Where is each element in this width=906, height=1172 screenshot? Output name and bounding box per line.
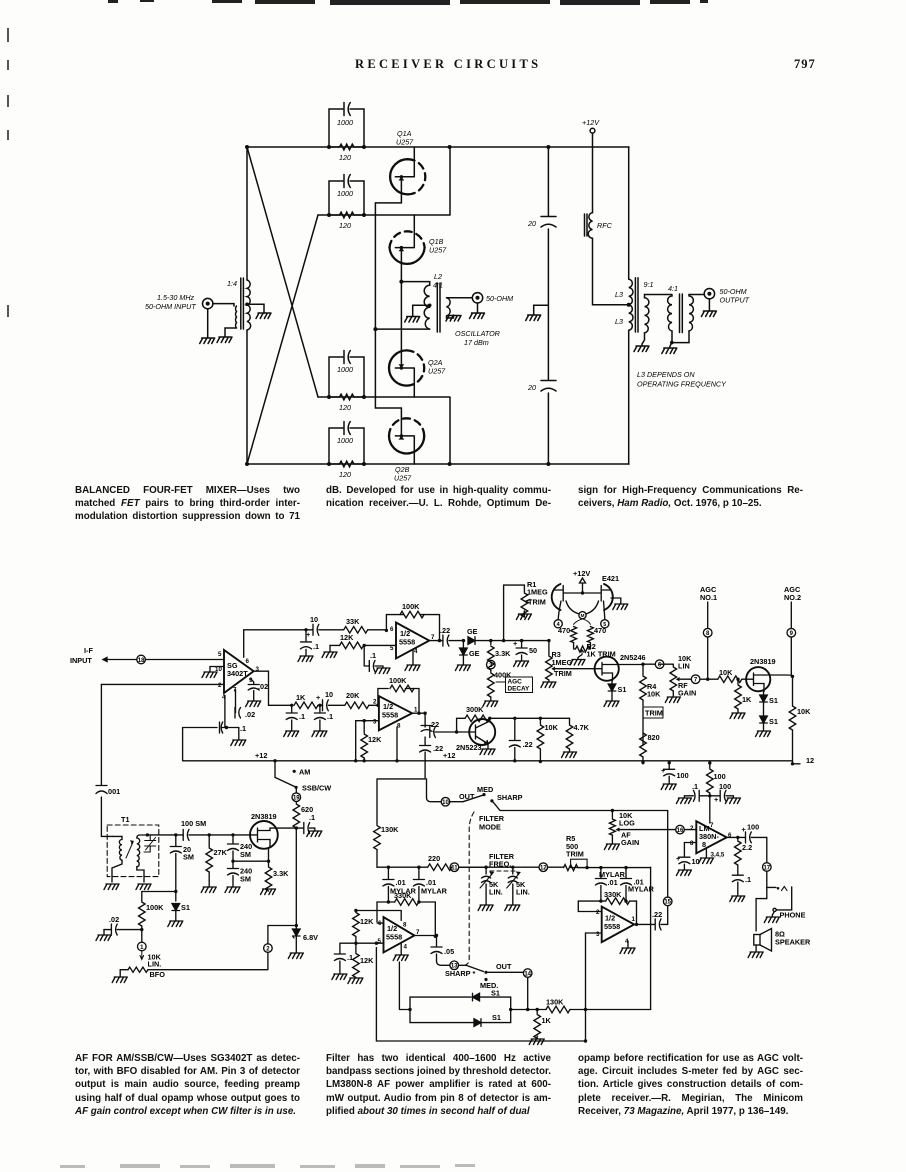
pin6 top path: 10 cap, .1, 33K	[298, 615, 386, 662]
zener 6.8V	[295, 926, 297, 930]
svg-text:12K: 12K	[360, 956, 374, 965]
connector J3 output	[701, 287, 749, 317]
svg-text:5558: 5558	[399, 638, 415, 647]
240 SM caps	[232, 835, 234, 844]
svg-text:LIN: LIN	[678, 662, 690, 671]
svg-text:TRIM: TRIM	[528, 598, 546, 607]
svg-text:10: 10	[692, 857, 700, 866]
drain to node 6 line	[613, 663, 656, 665]
svg-text:10: 10	[325, 690, 333, 699]
node 10 OUT switch	[426, 779, 428, 798]
svg-text:100: 100	[677, 771, 689, 780]
svg-text:4: 4	[414, 648, 418, 655]
op-amp U5 1/2 5558 (filter 2)	[586, 897, 673, 953]
node 2	[264, 944, 273, 953]
output and .05	[414, 935, 436, 937]
inductor RFC	[585, 213, 629, 305]
svg-text:SM: SM	[240, 875, 251, 884]
svg-text:AGC: AGC	[508, 679, 523, 686]
svg-text:+12: +12	[443, 751, 455, 760]
svg-text:5558: 5558	[386, 933, 402, 942]
op-amp U2B 1/2 5558	[356, 676, 443, 779]
svg-text:300K: 300K	[466, 705, 484, 714]
AGC NO.2 line node 9	[784, 585, 814, 765]
pin8 to rail	[396, 727, 398, 761]
header	[355, 57, 541, 72]
svg-text:SM: SM	[183, 853, 194, 862]
R4 10K TRIM	[642, 664, 644, 675]
resistor R1 120	[329, 144, 365, 162]
svg-text:NO.2: NO.2	[784, 593, 801, 602]
svg-text:OUT: OUT	[496, 962, 512, 971]
transistor Q2B	[389, 408, 424, 483]
svg-text:4: 4	[404, 944, 408, 951]
top caption	[75, 484, 300, 524]
svg-text:1K: 1K	[742, 695, 752, 704]
svg-text:T1: T1	[121, 815, 130, 824]
power +12V	[582, 118, 600, 213]
svg-text:MODE: MODE	[479, 823, 501, 832]
svg-text:130K: 130K	[546, 998, 564, 1007]
mylar caps	[600, 868, 602, 878]
transformer L2 4:1	[401, 272, 471, 332]
speaker branch	[756, 887, 767, 931]
svg-text:.001: .001	[106, 787, 120, 796]
svg-text:100K: 100K	[389, 676, 407, 685]
svg-text:.1: .1	[299, 712, 305, 721]
svg-text:7: 7	[710, 822, 714, 829]
wire: Q1B source down to Q2A	[400, 282, 402, 368]
svg-text:20K: 20K	[346, 691, 360, 700]
pin4 and .1 cap line to +12 rail corner	[183, 696, 239, 761]
resistor R4 120	[329, 461, 365, 479]
svg-text:I-F: I-F	[84, 646, 93, 655]
svg-text:SSB/CW: SSB/CW	[302, 784, 331, 793]
op-amp U3 LM380N-8	[676, 821, 767, 901]
130K	[546, 1006, 570, 1013]
transistor Q4 2N5223	[430, 705, 590, 762]
svg-text:.1: .1	[370, 651, 376, 660]
svg-text:MYLAR: MYLAR	[599, 870, 626, 879]
svg-text:6: 6	[390, 626, 394, 633]
svg-text:S1: S1	[181, 903, 190, 912]
transistor Q1B	[390, 215, 448, 282]
svg-text:S1: S1	[491, 989, 500, 998]
switch AM / SSB-CW	[275, 761, 331, 926]
svg-text:10K: 10K	[647, 690, 661, 699]
svg-text:5: 5	[378, 938, 382, 945]
svg-text:10K: 10K	[719, 668, 733, 677]
svg-text:3: 3	[373, 719, 377, 726]
svg-text:12: 12	[540, 866, 547, 872]
tuning cap inside box	[144, 835, 156, 852]
ground stub mid	[526, 305, 549, 320]
coupling cap to ground right of preamp	[296, 827, 303, 829]
.1 caps to ground	[291, 705, 293, 712]
svg-text:12: 12	[806, 756, 814, 765]
junction dots	[245, 145, 631, 466]
100 cap right	[710, 795, 720, 797]
.1 cap left	[700, 795, 710, 797]
svg-text:.1: .1	[327, 712, 333, 721]
transformer L3 9:1	[615, 147, 672, 464]
connector: phone jack and speaker	[748, 863, 811, 958]
4.7K	[569, 718, 571, 724]
svg-text:+: +	[316, 693, 320, 702]
svg-text:TRIM: TRIM	[554, 669, 572, 678]
R3 trimmer and 2N5246	[541, 639, 664, 764]
svg-text:.1: .1	[309, 813, 315, 822]
2.2 resistor	[737, 837, 739, 840]
op-amp U4 1/2 5558 (filter 1)	[332, 909, 532, 990]
GE shunt diode	[462, 641, 464, 648]
capacitor C1 1000	[329, 103, 364, 148]
10K LIN RF GAIN pot	[660, 664, 674, 666]
svg-text:820: 820	[648, 733, 660, 742]
second bandpass stage	[548, 834, 655, 926]
svg-text:TRIM: TRIM	[566, 850, 584, 859]
pin3 network	[356, 721, 379, 733]
wire: top rail 1	[247, 146, 629, 148]
R2 pot	[574, 643, 591, 649]
svg-text:NO.1: NO.1	[700, 593, 717, 602]
wire: rail 2	[318, 147, 450, 215]
svg-text:S1: S1	[618, 685, 627, 694]
.22 bypass	[514, 718, 516, 740]
svg-text:8: 8	[702, 840, 706, 849]
svg-text:LIN.: LIN.	[489, 888, 503, 897]
svg-text:1MEG: 1MEG	[552, 658, 573, 667]
svg-text:2N5223: 2N5223	[456, 743, 482, 752]
svg-text:MYLAR: MYLAR	[421, 887, 448, 896]
svg-text:1K TRIM: 1K TRIM	[587, 650, 616, 659]
svg-text:15: 15	[664, 900, 671, 906]
svg-text:.22: .22	[433, 744, 443, 753]
connector J1 input	[145, 293, 234, 344]
mylar caps + 330K stage 1	[377, 867, 448, 938]
svg-text:10K: 10K	[545, 723, 559, 732]
470 resistors	[574, 619, 591, 625]
svg-text:.1: .1	[347, 953, 353, 962]
svg-text:2: 2	[690, 825, 694, 832]
12K input resistor opamp A	[322, 633, 396, 674]
connector J2 oscillator	[455, 293, 513, 347]
svg-text:+: +	[676, 854, 680, 863]
svg-text:8: 8	[403, 922, 407, 929]
27K	[208, 835, 210, 847]
svg-text:10: 10	[310, 615, 318, 624]
.22 GE diode chain	[440, 580, 549, 707]
capacitor 20 lower	[527, 381, 556, 393]
svg-text:1K: 1K	[296, 693, 306, 702]
svg-text:SHARP: SHARP	[497, 793, 523, 802]
svg-text:S1: S1	[492, 1013, 501, 1022]
meter tube E421	[552, 569, 628, 665]
svg-text:1: 1	[632, 916, 636, 923]
transistor Q2 2N5246	[595, 657, 619, 681]
svg-text:3402T: 3402T	[227, 669, 248, 678]
op-amp U2A 1/2 5558	[385, 602, 443, 671]
svg-text:SHARP *: SHARP *	[445, 969, 475, 978]
svg-text:100: 100	[719, 782, 731, 791]
svg-text:+: +	[742, 825, 746, 834]
transistor Q1A	[375, 129, 425, 203]
svg-text:4.7K: 4.7K	[574, 723, 590, 732]
svg-text:16: 16	[677, 828, 684, 834]
svg-text:.02: .02	[245, 710, 255, 719]
collector up to 300K line	[489, 718, 491, 721]
svg-text:470: 470	[594, 626, 606, 635]
svg-text:12K: 12K	[360, 917, 374, 926]
pin3 right	[254, 671, 292, 705]
svg-text:50: 50	[529, 646, 537, 655]
svg-text:17: 17	[763, 865, 770, 871]
capacitor C2 1000	[329, 175, 364, 216]
capacitor C3 1000	[329, 351, 364, 398]
pin7 .02 cap	[235, 690, 237, 713]
svg-text:2N3819: 2N3819	[750, 657, 776, 666]
wire: mid vertical with caps	[547, 147, 549, 464]
svg-text:PHONE: PHONE	[780, 911, 806, 920]
transformer 4:1 output	[662, 284, 704, 354]
svg-text:470: 470	[558, 626, 570, 635]
svg-text:TRIM: TRIM	[645, 709, 663, 718]
filter section: opamp2 output down to 130K	[374, 779, 668, 965]
svg-text:330K: 330K	[394, 891, 412, 900]
svg-text:5558: 5558	[382, 711, 398, 720]
pin10 ground	[210, 667, 224, 673]
AF gain pot 10K LOG	[604, 811, 675, 850]
svg-text:S1: S1	[769, 717, 778, 726]
svg-text:27K: 27K	[214, 848, 228, 857]
R1 trimmer	[504, 585, 525, 641]
feedback 100K	[386, 615, 439, 641]
node 1 and BFO pot	[138, 942, 147, 951]
svg-text:2: 2	[373, 699, 377, 706]
pin2 line to left vertical	[101, 683, 224, 685]
pin6 up	[244, 630, 306, 658]
output	[412, 712, 425, 714]
svg-text:18: 18	[138, 658, 145, 664]
svg-text:+: +	[661, 766, 665, 775]
svg-text:GE: GE	[469, 649, 480, 658]
svg-text:10K: 10K	[797, 707, 811, 716]
svg-text:100 SM: 100 SM	[181, 819, 206, 828]
svg-text:3: 3	[256, 666, 260, 673]
svg-text:5: 5	[390, 645, 394, 652]
op-amp U1 SG3402T	[101, 630, 306, 761]
svg-text:8: 8	[690, 840, 694, 847]
svg-text:11: 11	[451, 866, 458, 872]
svg-text:GE: GE	[467, 627, 478, 636]
svg-text:12K: 12K	[368, 735, 382, 744]
svg-text:10: 10	[442, 800, 449, 806]
330K	[578, 900, 605, 902]
resistor R3 120	[329, 394, 365, 412]
pin3 second path: 1K, 10, 20K	[284, 690, 378, 737]
50 cap	[521, 641, 523, 648]
diode threshold box	[376, 867, 650, 1044]
pin8 bias	[356, 911, 401, 921]
svg-text:19: 19	[293, 796, 300, 802]
capacitor 20 upper	[527, 217, 556, 229]
pin 8 cap	[684, 843, 696, 857]
resistor 33K	[344, 627, 368, 634]
svg-text:AM: AM	[299, 768, 310, 777]
svg-text:2.2: 2.2	[742, 843, 752, 852]
svg-text:.05: .05	[444, 947, 454, 956]
svg-text:130K: 130K	[381, 825, 399, 834]
.02 cap	[104, 929, 111, 931]
svg-text:LOG: LOG	[619, 819, 635, 828]
svg-text:.1: .1	[240, 724, 246, 733]
.1 and 12K2 below pin5	[340, 943, 356, 953]
bottom caption	[75, 1052, 300, 1118]
transformer T1 1:4	[217, 278, 271, 343]
10K	[539, 718, 541, 724]
svg-text:6.8V: 6.8V	[303, 933, 318, 942]
svg-text:.22: .22	[523, 740, 533, 749]
svg-text:220: 220	[428, 854, 440, 863]
svg-text:INPUT: INPUT	[70, 656, 92, 665]
1K to ground	[536, 1010, 538, 1014]
svg-text:100K: 100K	[146, 903, 164, 912]
output	[727, 836, 746, 838]
.22 cap to 2N5223 base	[0, 0, 1, 1]
svg-text:LIN.: LIN.	[516, 888, 530, 897]
svg-text:S1: S1	[769, 696, 778, 705]
svg-text:BFO: BFO	[150, 970, 166, 979]
pins 3,4,5 ground	[705, 848, 707, 858]
svg-text:GAIN: GAIN	[678, 689, 696, 698]
svg-text:OUT: OUT	[459, 792, 475, 801]
node 18 / I-F input	[70, 646, 224, 665]
svg-text:+12: +12	[255, 751, 267, 760]
svg-text:SPEAKER: SPEAKER	[775, 938, 811, 947]
svg-text:.02: .02	[109, 915, 119, 924]
svg-text:.1: .1	[313, 642, 319, 651]
svg-text:2N3819: 2N3819	[251, 812, 277, 821]
svg-text:MYLAR: MYLAR	[628, 885, 655, 894]
capacitor C4 1000	[329, 422, 364, 465]
wire: left vertical (T1 secondary column)	[246, 147, 248, 464]
svg-text:SM: SM	[240, 850, 251, 859]
svg-text:LIN.: LIN.	[148, 960, 162, 969]
svg-text:2: 2	[596, 909, 600, 916]
transistor Q2A	[389, 350, 446, 397]
svg-text:3.3K: 3.3K	[495, 649, 511, 658]
transformer T2 (T1 box)	[104, 815, 159, 890]
svg-text:.01: .01	[608, 878, 618, 887]
source line to 3.3K	[233, 860, 269, 862]
left vertical with .001 cap	[96, 684, 120, 836]
3.3K to AGC decay	[490, 641, 492, 645]
svg-text:1: 1	[414, 707, 418, 714]
+12 rail	[183, 751, 800, 766]
transistor Q5 2N3819 preamp	[250, 812, 296, 861]
svg-text:.22: .22	[652, 910, 662, 919]
5K LIN pot 2	[459, 866, 539, 868]
svg-text:12K: 12K	[340, 633, 354, 642]
wire: crossover diagonals	[247, 147, 318, 464]
svg-text:100: 100	[747, 823, 759, 832]
svg-text:5558: 5558	[604, 922, 620, 931]
AGC NO.1 line, node 8, node 7	[660, 585, 752, 719]
5K LIN pot 1 (variable)	[482, 876, 491, 882]
svg-text:3.3K: 3.3K	[273, 869, 289, 878]
wire: rail 3	[318, 397, 450, 464]
preamp input line	[147, 819, 289, 895]
svg-text:330K: 330K	[604, 890, 622, 899]
pin9 .02	[250, 679, 253, 685]
svg-text:2: 2	[218, 682, 222, 689]
svg-text:.22: .22	[440, 626, 450, 635]
wire: L2 bottom to source column	[375, 328, 429, 330]
pin4 ground	[400, 944, 402, 955]
svg-text:6: 6	[246, 658, 250, 665]
svg-text:14: 14	[524, 971, 531, 977]
wire: Q1A source jog down to Q2B jog	[375, 203, 401, 408]
svg-text:5: 5	[218, 651, 222, 658]
svg-text:.1: .1	[692, 782, 698, 791]
svg-text:.1: .1	[745, 875, 751, 884]
svg-text:2N5246: 2N5246	[620, 653, 646, 662]
svg-text:M: M	[581, 613, 585, 618]
svg-text:+12V: +12V	[573, 569, 590, 578]
svg-text:3: 3	[596, 931, 600, 938]
transistor Q3 2N3819 AGC	[746, 657, 794, 737]
svg-text:E421: E421	[602, 574, 619, 583]
svg-text:1MEG: 1MEG	[527, 588, 548, 597]
svg-text:+: +	[513, 639, 517, 648]
20 SM cap	[175, 835, 177, 846]
svg-text:33K: 33K	[346, 617, 360, 626]
ganged dash	[490, 870, 516, 872]
svg-text:GAIN: GAIN	[621, 838, 639, 847]
svg-text:100: 100	[714, 772, 726, 781]
resistor R2 120	[329, 212, 365, 230]
feedback 100K	[378, 689, 419, 714]
right plate ground	[611, 598, 621, 604]
node 11 line: 220, 5K pots	[377, 852, 548, 911]
svg-text:MED: MED	[477, 785, 493, 794]
svg-text:DECAY: DECAY	[508, 686, 531, 693]
100K and S1 below 20SM	[96, 890, 318, 983]
svg-text:+: +	[714, 795, 718, 804]
wire: bottom rail 4	[247, 463, 629, 465]
svg-text:100K: 100K	[402, 602, 420, 611]
AGC filter caps row	[661, 763, 740, 823]
svg-text:1K: 1K	[542, 1016, 552, 1025]
svg-text:.02: .02	[258, 682, 268, 691]
